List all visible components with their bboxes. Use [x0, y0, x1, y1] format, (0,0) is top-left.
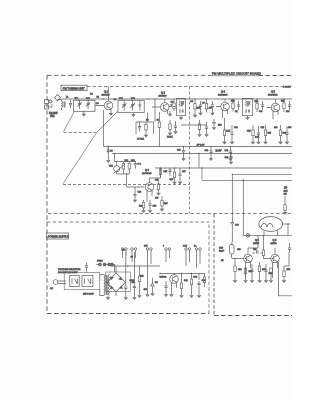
svg-text:C50: C50 — [219, 248, 224, 250]
terminal pair TP2 — [131, 248, 137, 262]
resistor R44 at box edge — [203, 274, 205, 288]
resistor R18 with ground — [279, 125, 282, 144]
svg-text:C16: C16 — [261, 127, 266, 129]
capacitor C26 — [168, 168, 171, 176]
sub-circuit: C6 R5 decoupling box — [136, 122, 154, 137]
svg-text:R1: R1 — [97, 97, 100, 99]
capacitor C42 below regulator — [164, 281, 167, 297]
svg-text:2SC403C: 2SC403C — [218, 95, 228, 97]
node: B+ label on AGC bus — [216, 150, 222, 153]
svg-text:110-120V 220-240V: 110-120V 220-240V — [58, 272, 78, 274]
svg-text:R3: R3 — [146, 120, 149, 122]
switch block S2 power switch — [82, 276, 94, 296]
junction dots on buses — [103, 98, 285, 274]
potentiometer VR1 — [114, 162, 126, 175]
fuse F1 — [97, 261, 114, 266]
wire: R21-R23 bottom joins and base line — [117, 174, 145, 187]
svg-text:C25: C25 — [153, 206, 158, 208]
capacitor C44 electrolytic small — [124, 252, 127, 300]
resistor R17 with ground — [264, 125, 267, 144]
svg-text:C26: C26 — [155, 180, 160, 182]
svg-text:C2: C2 — [90, 94, 93, 96]
wire: speaker lead to amp output — [283, 224, 291, 235]
wire: AGC bus row 2 lower — [112, 153, 292, 155]
node: antenna label — [49, 112, 58, 118]
resistor R54 with ground — [269, 268, 272, 283]
svg-text:330: 330 — [259, 111, 263, 113]
resistor R25 on audio bus — [159, 168, 161, 177]
wire: Q8 collector to Q9 base — [248, 236, 258, 248]
capacitor C20 on bus with ground — [209, 147, 212, 161]
trimmer block TC1 — [74, 100, 96, 111]
switch block S1 voltage selector — [64, 273, 100, 290]
svg-text:35V: 35V — [144, 246, 148, 248]
lamp PL1 dial lamp — [246, 234, 250, 238]
board outline: amplifier board dashed left — [213, 214, 215, 316]
transistor Q4 IF amp 2SC403 — [216, 91, 229, 119]
wire: speaker leads down to amp — [264, 231, 278, 236]
svg-text:2SC403C: 2SC403C — [142, 173, 152, 175]
wire: audio bus mid — [155, 167, 292, 169]
board outline: main circuit board dashed border top — [47, 74, 292, 76]
wire: rectifier output bus — [111, 266, 161, 270]
resistor R24 below Q3 — [142, 200, 145, 213]
wire: output transformer lead — [279, 262, 293, 296]
linkage: trimmer diagonal left — [64, 112, 75, 132]
transistor Q3 AM conv 2SC403 — [142, 169, 154, 202]
resistor R9 — [205, 99, 207, 113]
resistor R8 — [193, 99, 196, 117]
wire: regulator bus — [160, 273, 205, 275]
capacitor C24 at Q3 base — [133, 187, 136, 202]
capacitor C12 row2 — [212, 119, 215, 130]
svg-text:C50: C50 — [237, 249, 242, 251]
board outline: power supply board dashed top — [47, 221, 209, 223]
svg-text:R25: R25 — [164, 171, 169, 173]
svg-text:Q 4: Q 4 — [221, 91, 226, 94]
svg-text:R13: R13 — [218, 125, 223, 127]
svg-text:2SC403C: 2SC403C — [268, 95, 278, 97]
svg-text:10K: 10K — [197, 108, 201, 110]
svg-text:R55: R55 — [287, 269, 292, 271]
capacitor C1 coupling — [69, 100, 72, 108]
capacitor C30 on drop wire — [231, 221, 240, 241]
svg-text:C24: C24 — [138, 192, 143, 194]
svg-text:470: 470 — [155, 198, 159, 200]
boundary: FM section dashed bottom edge / amplifier board top — [48, 213, 292, 215]
transistor Q1 FM RF amp 2SC535 — [95, 87, 113, 114]
svg-text:POWER SUPPLY: POWER SUPPLY — [48, 235, 69, 239]
resistor R43 — [190, 274, 193, 298]
svg-text:16Ω: 16Ω — [284, 191, 288, 193]
wire: TP3 drop with ground — [147, 268, 149, 294]
svg-text:C5: C5 — [110, 151, 113, 153]
svg-text:C22: C22 — [225, 157, 230, 159]
capacitor C23 on bus with ground — [182, 147, 185, 161]
wire: Q1 collector drop to bus — [103, 110, 105, 147]
resistor R6 with ground — [168, 120, 171, 135]
variable capacitor gang box VC1 — [118, 100, 144, 112]
svg-text:75Ω: 75Ω — [50, 115, 55, 118]
svg-text:1K: 1K — [221, 260, 224, 262]
transistor Q5 IF amp 2SC403 — [267, 91, 280, 120]
diode D5 — [151, 278, 155, 296]
svg-text:L1: L1 — [66, 97, 69, 99]
svg-text:Q 8: Q 8 — [255, 239, 260, 242]
svg-text:R8: R8 — [191, 101, 194, 103]
transistor Q2 FM mixer 2SC536 — [152, 92, 169, 115]
svg-text:B+: B+ — [194, 246, 197, 248]
resistor R15 with ground — [251, 125, 254, 144]
resistor R52 with ground — [244, 268, 247, 283]
IF transformer IFT2 — [243, 98, 253, 115]
capacitor C10 — [199, 101, 202, 115]
wire: Q3 collector up to bus — [150, 168, 161, 178]
board outline: amplifier board dashed bottom — [214, 315, 292, 317]
resistor R42 — [180, 274, 183, 298]
IF transformer IFT1 — [177, 98, 186, 115]
svg-text:C3: C3 — [96, 103, 99, 105]
svg-text:2SC535: 2SC535 — [102, 95, 111, 97]
svg-text:R51: R51 — [238, 269, 243, 271]
svg-text:1K: 1K — [235, 111, 238, 113]
svg-text:C9: C9 — [202, 103, 205, 105]
resistor R7 — [173, 99, 175, 111]
terminal pair TP6 — [195, 248, 201, 268]
transistor Q9 audio output — [266, 239, 279, 278]
capacitor C19 below IFT1 — [205, 122, 208, 137]
svg-text:4.7K: 4.7K — [226, 131, 231, 133]
wire: FM B+ bus top row — [62, 98, 292, 100]
svg-text:10µF: 10µF — [219, 251, 225, 253]
label: voltage selector text — [58, 268, 81, 274]
resistor R12 — [232, 99, 234, 112]
coil L1 antenna coil — [58, 100, 66, 111]
connector P1 AC plug — [50, 280, 66, 290]
svg-text:117V 234V: 117V 234V — [83, 294, 94, 296]
wire: drop to tone cap — [232, 174, 292, 221]
wire: Q3 stage feed bus — [115, 161, 137, 163]
ground IFT1 — [179, 116, 182, 120]
svg-text:R43: R43 — [194, 277, 199, 279]
capacitor C21 on bus with ground — [229, 147, 232, 161]
wire: IF bias bus row 2 left — [104, 146, 293, 148]
resistor R50 — [262, 236, 266, 259]
svg-text:470: 470 — [144, 289, 148, 291]
capacitor C27 with ground — [178, 168, 181, 184]
svg-text:C23: C23 — [177, 150, 182, 152]
boundary: FM tuning unit dashed inner bottom — [63, 184, 190, 186]
svg-text:R14: R14 — [255, 101, 260, 103]
svg-text:R17: R17 — [268, 133, 273, 135]
svg-text:R26: R26 — [170, 179, 175, 181]
svg-text:Q 9: Q 9 — [273, 239, 278, 242]
terminal pair TP1 — [121, 248, 127, 258]
svg-text:R15: R15 — [247, 131, 252, 133]
svg-text:VOLTAGE SELECTOR: VOLTAGE SELECTOR — [58, 268, 81, 271]
resistor R14 — [256, 99, 258, 112]
svg-text:AF 0.3V: AF 0.3V — [197, 144, 205, 147]
ground Q1 emitter — [109, 113, 112, 115]
capacitor C18 with ground — [285, 126, 288, 144]
svg-text:C41: C41 — [132, 282, 137, 284]
svg-text:C27: C27 — [182, 171, 187, 173]
svg-text:AC: AC — [50, 287, 53, 290]
label box: FM TUNING UNIT — [61, 85, 87, 90]
capacitor C17 — [288, 101, 291, 110]
transistor Q10 regulator 2SD92 — [160, 274, 179, 293]
svg-text:B+9V: B+9V — [216, 150, 222, 153]
capacitor C9 with ground — [174, 121, 177, 134]
resistor R28 mid with ground — [157, 181, 160, 195]
wire: IFT1 secondary to detector — [181, 124, 207, 126]
resistor R19 below IFT1 — [198, 120, 201, 137]
speaker SP1 oval with cone — [259, 217, 283, 232]
label box: POWER SUPPLY — [47, 233, 69, 239]
capacitor C41 electrolytic — [130, 252, 137, 300]
svg-text:R27: R27 — [164, 203, 169, 205]
antenna symbol — [55, 95, 61, 102]
svg-text:Q 5: Q 5 — [271, 91, 276, 94]
svg-text:VR1: VR1 — [109, 166, 114, 168]
wire: stub from AGC bus down — [198, 154, 200, 169]
transistor Q8 audio driver — [232, 239, 260, 278]
component value labels scatter — [66, 94, 292, 292]
ground IFT2 — [246, 116, 249, 120]
svg-text:473: 473 — [209, 108, 213, 110]
svg-text:Q 3: Q 3 — [145, 169, 150, 172]
board outline: power supply board dashed right — [208, 222, 210, 314]
resistor R53 with ground — [258, 262, 261, 283]
resistor R41 — [138, 266, 141, 298]
transformer T1 power — [100, 275, 110, 296]
capacitor C11 — [211, 101, 214, 115]
svg-text:2SD92: 2SD92 — [160, 277, 167, 279]
capacitor C43 electrolytic — [197, 274, 200, 298]
ground below trimmer block — [82, 111, 85, 116]
svg-text:100: 100 — [286, 111, 290, 113]
ground regulator emitter — [170, 292, 173, 297]
svg-text:Q 2: Q 2 — [161, 92, 166, 95]
wire: drop to amplifier input — [242, 180, 244, 235]
wire: amplifier supply bus — [243, 234, 292, 236]
capacitor C8 coupling to IFT — [169, 104, 176, 107]
terminal pair TP3 — [146, 248, 152, 268]
capacitor C52 with ground — [250, 264, 253, 283]
resistor R27 below audio bus — [160, 196, 163, 211]
resistor R13 with ground — [223, 118, 226, 144]
capacitor C40 line filter — [85, 263, 88, 273]
svg-text:R5 1K: R5 1K — [167, 137, 173, 139]
svg-text:0: 0 — [163, 246, 165, 248]
svg-text:C30: C30 — [235, 225, 240, 227]
capacitor C15 — [261, 101, 264, 110]
ground near Q2 emitter — [168, 111, 171, 116]
terminal pair TP5 — [185, 248, 191, 266]
svg-text:B 30.5V: B 30.5V — [283, 86, 291, 88]
bridge rectifier D1-D4 — [106, 270, 131, 296]
svg-text:6.3V: 6.3V — [183, 246, 188, 248]
wire: output line to volume control box — [202, 168, 292, 180]
resistor R20 Q2 collector load — [158, 112, 160, 147]
svg-text:SP: SP — [284, 187, 288, 190]
svg-text:R24: R24 — [139, 206, 144, 208]
svg-text:D5: D5 — [155, 282, 158, 284]
svg-text:C21: C21 — [225, 150, 230, 152]
boundary: FM tuning unit diagonal lower — [63, 134, 96, 184]
capacitor C54 right edge — [288, 243, 291, 252]
terminal pair TP4 — [165, 248, 171, 262]
svg-text:R16: R16 — [281, 101, 286, 103]
capacitor C53 with ground — [264, 264, 267, 283]
resistor R22 — [122, 162, 124, 175]
capacitor C14 with ground — [230, 125, 233, 144]
svg-text:2SB56: 2SB56 — [253, 243, 260, 245]
resistor R55 with ground — [282, 252, 289, 283]
title text: circuit board caption — [212, 72, 261, 76]
capacitor C50 input electrolytic — [219, 241, 234, 258]
linkage: tuning gang diagonal right — [97, 112, 118, 133]
svg-text:FM MULTIPLEX CIRCUIT BOARD: FM MULTIPLEX CIRCUIT BOARD — [212, 72, 261, 76]
svg-text:C20: C20 — [205, 150, 210, 152]
board outline: main circuit board dashed border left — [46, 75, 48, 313]
node: AF label above bus — [197, 144, 205, 147]
svg-text:Q 1: Q 1 — [104, 91, 109, 94]
ground TP3 — [146, 295, 149, 297]
ground below gang box — [132, 113, 135, 117]
resistor R26 with ground — [173, 168, 176, 184]
resistor R23 — [128, 162, 130, 175]
wire: fuse to transformer — [113, 265, 114, 273]
svg-text:223: 223 — [274, 127, 278, 129]
capacitor C5 below Q1 drop — [107, 147, 110, 163]
capacitor C22 below AGC bus — [229, 154, 232, 165]
wire: stub junction at buses left — [108, 147, 115, 162]
svg-text:2SB56: 2SB56 — [271, 243, 278, 245]
wire: title underline rail to board edge — [211, 75, 259, 77]
svg-text:1W: 1W — [284, 194, 288, 196]
label: SP speaker text — [284, 187, 288, 196]
svg-text:C43: C43 — [202, 280, 207, 282]
board outline: power supply board dashed bottom — [47, 313, 209, 315]
capacitor C25 below Q3 — [148, 200, 151, 213]
svg-text:R42: R42 — [184, 280, 189, 282]
resistor R16 — [283, 99, 285, 112]
boundary: FM tuning unit dashed right edge — [189, 87, 191, 214]
svg-text:C 1: C 1 — [138, 164, 142, 166]
svg-text:2.2K: 2.2K — [255, 137, 260, 139]
capacitor C2a bias — [134, 162, 142, 169]
svg-text:C7 0.01: C7 0.01 — [137, 139, 145, 141]
svg-text:2SC536: 2SC536 — [159, 96, 168, 98]
connector J1 FM antenna jack — [45, 100, 53, 110]
svg-text:FM TUNING UNIT: FM TUNING UNIT — [63, 87, 85, 91]
svg-text:R12: R12 — [231, 101, 236, 103]
resistor R51 with ground — [233, 259, 236, 283]
node: B voltage label at board edge — [283, 86, 291, 88]
svg-text:473: 473 — [288, 127, 292, 129]
capacitor C51 coupling — [253, 250, 264, 253]
svg-text:C14: C14 — [234, 127, 239, 129]
boundary: tuning linkage dashed horizontal — [63, 132, 97, 134]
boundary: FM tuning unit dashed top edge — [87, 86, 292, 88]
capacitor C13 — [237, 101, 240, 110]
resistor R30 speaker feed — [283, 196, 286, 214]
capacitor C16 with ground — [257, 126, 260, 144]
svg-text:FUSE: FUSE — [97, 261, 103, 263]
svg-text:R41: R41 — [140, 276, 145, 278]
wire: Q2 emitter drop — [148, 99, 156, 122]
svg-text:6V: 6V — [131, 257, 134, 259]
ground transformer core — [106, 296, 109, 300]
